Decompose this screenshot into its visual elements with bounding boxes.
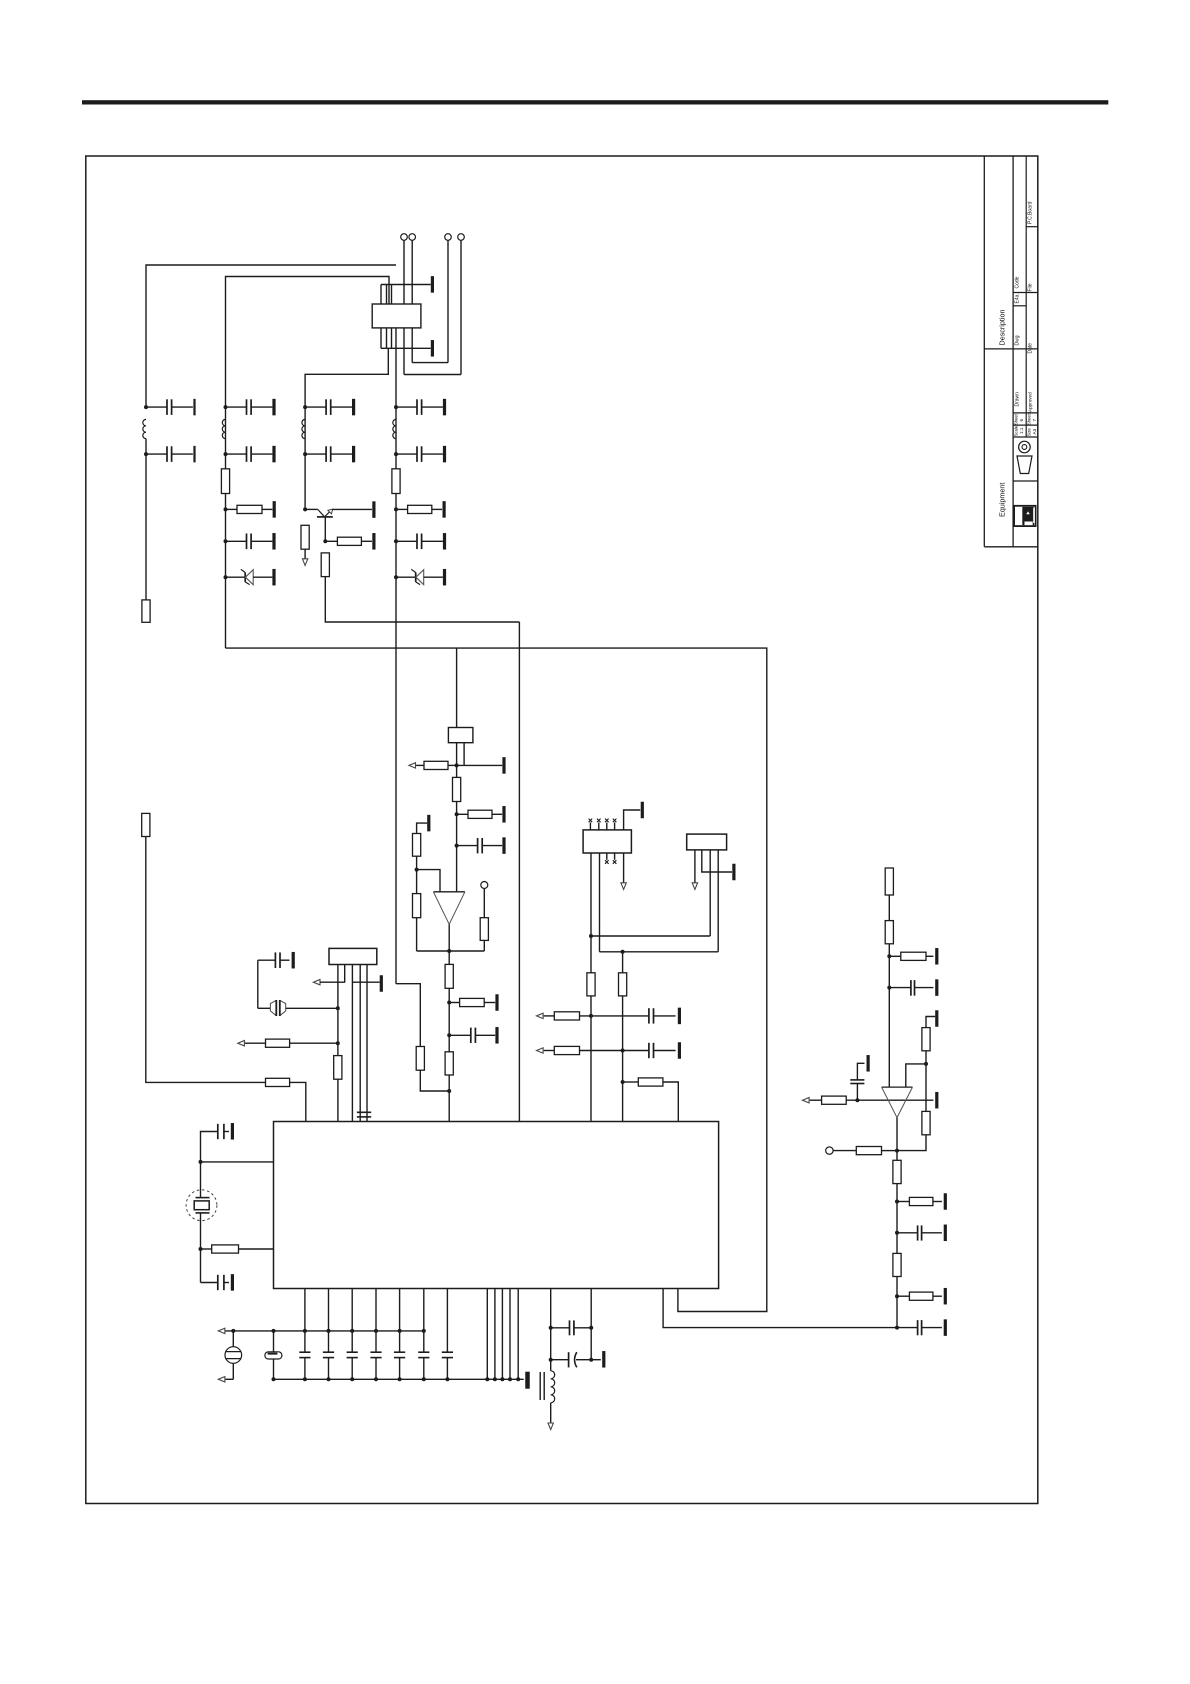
ceramic resonator Y1 xyxy=(232,1331,234,1347)
node X1 top xyxy=(199,1160,203,1164)
wire cap down to discriminator xyxy=(257,960,259,1008)
terminal J1 circle xyxy=(401,234,408,241)
capacitor C32 to ground xyxy=(305,453,326,455)
title block row line y=305.8 xyxy=(1013,305,1026,307)
svg-text:Dwg: Dwg xyxy=(1015,335,1021,345)
node cap 3 top xyxy=(350,1329,354,1333)
wire R32 to node xyxy=(925,1051,927,1064)
signal arrow left bus bottom xyxy=(218,1377,225,1382)
resistor R8 to ground xyxy=(396,508,408,510)
wire U2 output bus y=951 xyxy=(417,950,485,952)
capacitor C25 bridging xyxy=(551,1327,570,1329)
resistor R31 to ground xyxy=(889,955,901,957)
wire J3 down xyxy=(447,240,449,362)
wire channel2 long run to IC pin xyxy=(226,648,767,1311)
svg-text:7: 7 xyxy=(1032,419,1037,422)
wire IC pin to T2 xyxy=(550,1289,552,1371)
resistor R38 vertical xyxy=(893,1253,901,1276)
capacitor C10 between pin4 pin5 xyxy=(357,1111,371,1113)
node cap 5 top xyxy=(398,1329,402,1333)
node R39 junction xyxy=(895,1294,899,1298)
capacitor C6 to ground xyxy=(396,406,417,408)
resistor R17 vertical xyxy=(416,870,418,894)
node R25 junction xyxy=(589,1014,593,1018)
wire elbow to C15 xyxy=(201,1132,218,1162)
node inv input xyxy=(415,868,419,872)
wire J2-J3 link y=362.6 xyxy=(412,362,448,364)
node cap 6 bottom xyxy=(422,1377,426,1381)
wire IC ground pin 2 xyxy=(494,1289,496,1380)
page top rule xyxy=(82,100,1108,104)
node ground pin 4 xyxy=(508,1377,512,1381)
wire node down xyxy=(925,1064,927,1112)
inductor L3 xyxy=(393,419,396,438)
node channel2 row1 xyxy=(224,405,228,409)
resistor R21 vertical xyxy=(445,1052,453,1075)
wire R10 to IC pin xyxy=(290,1082,306,1121)
electrolytic capacitor C17 xyxy=(272,1329,276,1333)
wire IC pin to cap 5 xyxy=(399,1289,401,1353)
wire channel2 vertical xyxy=(225,407,227,648)
node T2 cap2 xyxy=(549,1358,553,1362)
capacitor C3 to ground xyxy=(226,406,247,408)
wire channel1 mid xyxy=(145,439,147,600)
resistor R14 vertical xyxy=(456,765,458,777)
wire J1-J4 link y=374.5 xyxy=(404,374,461,376)
resistor R23 vertical xyxy=(587,973,595,996)
resistor R13 horizontal xyxy=(416,764,424,766)
svg-text:Drawn: Drawn xyxy=(1015,392,1021,407)
wire R29-R30 xyxy=(888,895,890,921)
resistor R25 horizontal xyxy=(544,1015,555,1017)
wire R36 down xyxy=(896,1184,898,1254)
B3 top pin 4 with x mark xyxy=(614,823,616,830)
resistor R39 to ground xyxy=(897,1295,909,1297)
node R13 junction xyxy=(455,763,459,767)
signal arrow down channel3 xyxy=(302,559,307,566)
B3 bottom x-mark pin 1 xyxy=(606,853,608,860)
capacitor C19 xyxy=(323,1351,334,1353)
wire J2 down through balun xyxy=(411,240,413,362)
IC B1 filter box xyxy=(329,948,377,964)
ground plate bar B1 xyxy=(380,975,383,992)
node resonator top xyxy=(231,1329,235,1333)
wire X1 top to IC xyxy=(201,1161,274,1163)
projection symbol circle xyxy=(1019,441,1031,453)
signal arrow left SIF line1 xyxy=(537,1013,544,1018)
wire B4 pin2 to ground plate xyxy=(702,850,732,872)
resistor R28 horizontal xyxy=(201,1248,212,1250)
B3 top pin 1 with x mark xyxy=(589,823,591,830)
svg-text:Description: Description xyxy=(998,310,1007,346)
capacitor C20 xyxy=(347,1351,358,1353)
plate bar bottom of balun xyxy=(431,340,434,357)
wire IC pin elbow to audio bottom xyxy=(663,1289,897,1328)
resistor R20 to ground xyxy=(449,1002,459,1004)
wire node to op-amp input xyxy=(417,870,440,892)
wire channel4 vertical long xyxy=(395,328,397,984)
wire IC ground pin 1 xyxy=(486,1289,488,1380)
resistor R32 vertical xyxy=(922,1028,930,1051)
capacitor C14 to ground xyxy=(648,1043,650,1058)
balun top strap to plate xyxy=(381,284,431,286)
resistor R1 vertical xyxy=(142,600,150,622)
ground plate bar C28 xyxy=(867,1055,870,1072)
svg-text:Sheets: Sheets xyxy=(1027,412,1032,425)
wire IC ground pin 4 xyxy=(509,1289,511,1380)
capacitor C2 to ground xyxy=(146,453,167,455)
wire elbow to C16 xyxy=(201,1282,218,1284)
wire X1 bottom xyxy=(200,1213,202,1283)
node cap 2 bottom xyxy=(327,1377,331,1381)
op-amp U4 triangle xyxy=(882,1086,913,1088)
node R15 junction xyxy=(455,812,459,816)
wire arrow to resonator xyxy=(226,1378,234,1380)
wire R9 down and across xyxy=(146,837,266,1083)
transistor Q1 emitter lead with arrow xyxy=(325,511,330,516)
wire plate to R32 xyxy=(926,1017,935,1028)
inductor L4 xyxy=(302,419,305,438)
projection symbol cone xyxy=(1017,456,1032,474)
svg-text:1:1: 1:1 xyxy=(1019,427,1024,434)
capacitor C30 to ground xyxy=(897,1327,918,1329)
signal arrow left AF out xyxy=(313,980,320,985)
node channel4 row4 xyxy=(394,539,398,543)
node C29 junction xyxy=(895,1231,899,1235)
resistor R2 vertical xyxy=(221,469,229,494)
wire R34 to op-amp xyxy=(846,1099,933,1101)
capacitor C18 xyxy=(299,1351,310,1353)
plate bar B4 xyxy=(732,864,735,881)
terminal circle U2 aux xyxy=(481,882,488,889)
node ground pin 5 xyxy=(516,1377,520,1381)
resistor R16 vertical xyxy=(413,834,421,857)
wire to ground bar xyxy=(591,1359,601,1361)
title block row line y=481 (projection symbol cell) xyxy=(1013,480,1038,482)
ground plate bar inv input xyxy=(427,815,430,832)
capacitor C23 xyxy=(418,1351,429,1353)
plate bar Q1 emitter xyxy=(372,501,375,517)
capacitor C27 to ground xyxy=(889,987,911,989)
signal arrow down B3 xyxy=(621,883,626,890)
node noninv input xyxy=(924,1062,928,1066)
wire J1 down through balun xyxy=(403,240,405,374)
signal arrow left SIF line2 xyxy=(537,1048,544,1053)
IC B2 box xyxy=(448,728,473,743)
node channel2 row3 xyxy=(224,507,228,511)
node C27 junction xyxy=(887,986,891,990)
node cap 1 top xyxy=(303,1329,307,1333)
zener diode D2 to ground xyxy=(396,576,416,578)
capacitor C11 to ground xyxy=(457,845,478,847)
balun winding line x=386.5 xyxy=(386,285,388,349)
node channel4 row5 xyxy=(394,575,398,579)
T2 core lines xyxy=(539,1372,541,1400)
node channel3 row1 xyxy=(303,405,307,409)
wire bus top y=1330.9 xyxy=(226,1330,424,1332)
node SIF1 xyxy=(621,950,625,954)
wire arrow to box pin2 xyxy=(320,981,345,983)
node R26 junction xyxy=(621,1049,625,1053)
title block row line y=348.9 (Description cell) xyxy=(984,348,1038,350)
svg-text:Size: Size xyxy=(1027,427,1032,436)
balun transformer T1 box xyxy=(372,304,421,328)
title block column line x=1026.2 xyxy=(1025,156,1027,437)
node pin591 cap1 xyxy=(589,1326,593,1330)
wire B1 pin1 to IC xyxy=(337,965,339,1056)
wire B3 chain to IC xyxy=(590,936,592,973)
wire B3 top to ground plate xyxy=(624,810,641,830)
wire IC pin to cap 7 xyxy=(446,1289,448,1353)
ground bar bus bottom xyxy=(525,1372,530,1389)
svg-text:Code: Code xyxy=(1015,276,1021,288)
capacitor C15 to ground xyxy=(217,1124,219,1139)
ground plate bar noninv xyxy=(935,1010,938,1027)
terminal J3 circle xyxy=(445,234,452,241)
node channel2 row5 xyxy=(224,575,228,579)
resistor R9 vertical isolated xyxy=(142,813,150,836)
wire IC pin to cap 2 xyxy=(328,1289,330,1353)
svg-text:A3: A3 xyxy=(1032,428,1037,434)
wire B4 pin4 down xyxy=(717,850,719,952)
resistor R4 vertical channel3 xyxy=(301,525,309,549)
IC U3 main box xyxy=(274,1122,719,1289)
capacitor C5 to ground xyxy=(226,540,247,542)
node R20 junction xyxy=(447,1001,451,1005)
capacitor C31 to ground xyxy=(305,406,326,408)
wire IC pin to cap 6 xyxy=(423,1289,425,1353)
svg-text:6: 6 xyxy=(1019,419,1024,422)
wire R38 down xyxy=(896,1277,898,1328)
node channel4 row3 xyxy=(394,507,398,511)
wire IC ground pin 3 xyxy=(501,1289,503,1380)
node output to IC xyxy=(447,1089,451,1093)
resistor R12 vertical pin1 xyxy=(334,1056,342,1080)
capacitor C29 to ground xyxy=(897,1232,918,1234)
resistor R33 vertical xyxy=(922,1111,930,1134)
node discriminator to pin1 xyxy=(336,1006,340,1010)
node channel1 row1 xyxy=(144,405,148,409)
node C11 junction xyxy=(455,844,459,848)
node cap 6 top xyxy=(422,1329,426,1333)
wire link2 y=951.8 xyxy=(600,951,719,953)
node channel2 row2 xyxy=(224,452,228,456)
node channel3 row3 xyxy=(303,507,307,511)
node ground pin 1 xyxy=(485,1377,489,1381)
wire bus elbow to R22 xyxy=(396,984,420,1047)
node cap 7 bottom xyxy=(445,1377,449,1381)
resistor R22 vertical xyxy=(416,1047,424,1071)
plate bar top of balun xyxy=(431,276,434,293)
wire R16 to node xyxy=(416,856,418,869)
node C12 junction xyxy=(447,1033,451,1037)
inductor L1 xyxy=(143,419,146,438)
capacitor C8 to ground xyxy=(396,540,417,542)
B3 top pin 3 with x mark xyxy=(606,823,608,830)
op-amp U2 triangle xyxy=(433,891,465,893)
wire B2 bottom pins xyxy=(456,743,458,766)
terminal circle audio xyxy=(826,1147,833,1154)
capacitor C21 xyxy=(370,1351,381,1353)
svg-text:Date: Date xyxy=(1028,343,1034,354)
resistor R10 horizontal xyxy=(266,1078,290,1086)
wire node down xyxy=(622,952,624,973)
inductor L2 xyxy=(222,419,225,438)
capacitor C16 to ground xyxy=(217,1275,219,1290)
company logo box xyxy=(1014,506,1036,526)
plate bar B2 xyxy=(502,757,505,774)
inductor T2 winding xyxy=(551,1371,555,1403)
node R37 junction xyxy=(895,1200,899,1204)
wire B1 pin2 xyxy=(344,965,346,983)
resistor R34 horizontal xyxy=(810,1099,822,1101)
wire X1 riser xyxy=(200,1162,202,1198)
wire plate to R16 xyxy=(417,823,428,833)
node pin591 cap2 xyxy=(589,1358,593,1362)
svg-text:Approved: Approved xyxy=(1028,392,1033,412)
capacitor C9 to ground xyxy=(258,959,276,961)
capacitor C24 xyxy=(442,1351,453,1353)
signal arrow down T2 xyxy=(548,1423,553,1430)
terminal J4 circle xyxy=(458,234,465,241)
node cap 3 bottom xyxy=(350,1377,354,1381)
node cap 1 bottom xyxy=(303,1377,307,1381)
svg-text:Sheet: Sheet xyxy=(1014,413,1019,425)
title block column line x=984.3 xyxy=(983,156,985,547)
capacitor C4 to ground xyxy=(226,453,247,455)
ceramic discriminator X2 xyxy=(258,1007,270,1009)
node cap 4 top xyxy=(374,1329,378,1333)
capacitor C7 to ground xyxy=(396,453,417,455)
IC B4 box xyxy=(687,834,727,850)
title block bottom line y=546.8 xyxy=(984,546,1038,548)
drawing frame border xyxy=(86,156,1038,1504)
ground plate bar op-amp right xyxy=(935,1092,938,1109)
wire C28 to ground plate xyxy=(857,1063,864,1080)
balun winding line x=391.5 xyxy=(391,285,393,349)
transistor Q1 collector lead xyxy=(305,508,318,510)
wire bus bottom y=1379.3 xyxy=(274,1378,524,1380)
node T2 cap1 xyxy=(549,1326,553,1330)
node channel4 row2 xyxy=(394,452,398,456)
resistor R37 to ground xyxy=(897,1201,909,1203)
svg-text:File: File xyxy=(1028,283,1034,291)
IC B3 ceramic filter box xyxy=(583,830,631,853)
resistor R30 vertical xyxy=(885,921,893,944)
node X1 bottom xyxy=(199,1247,203,1251)
capacitor C22 xyxy=(394,1351,405,1353)
polarized capacitor C26 bridging xyxy=(551,1359,569,1361)
wire B3 pin to node xyxy=(590,853,592,936)
signal arrow left VIF xyxy=(409,763,416,768)
resistor R7 vertical xyxy=(392,469,400,494)
resistor R15 to ground xyxy=(457,813,468,815)
wire T2 to arrow xyxy=(550,1403,552,1423)
svg-text:Scale: Scale xyxy=(1014,425,1019,436)
terminal J2 circle xyxy=(409,234,416,241)
title block row line y=292.5 (Code/File cell) xyxy=(1013,292,1038,294)
wire node to op-amp xyxy=(906,1064,926,1087)
transistor Q1 base bar xyxy=(317,516,333,518)
resistor R27 horizontal to IC xyxy=(623,1081,639,1083)
wire channel3 stub from balun strap xyxy=(305,348,388,509)
wire B2 top pin xyxy=(456,648,458,727)
wire J4 down xyxy=(460,240,462,374)
resistor R35 horizontal xyxy=(856,1147,881,1155)
signal arrow left bus top xyxy=(218,1328,225,1333)
wire U4 output down xyxy=(896,1118,898,1161)
node U2 output xyxy=(447,949,451,953)
balun bottom strap to plate xyxy=(381,347,431,349)
signal arrow left audio in xyxy=(803,1098,810,1103)
wire B4 pin3 down xyxy=(709,850,711,936)
wire B4 pin1 down arrow xyxy=(694,850,696,883)
title block row line y=437 (Scale/Size cell) xyxy=(1013,436,1038,438)
crystal X1 element xyxy=(196,1197,210,1199)
B3 bottom x-mark pin 2 xyxy=(614,853,616,860)
node cap 2 top xyxy=(327,1329,331,1333)
wire IC ground pin 5 xyxy=(517,1289,519,1380)
wire link1 y=936 xyxy=(591,935,710,937)
wire circle to R35 xyxy=(833,1150,856,1152)
wire R6 to bus elbow xyxy=(325,577,519,622)
wire Q1 base down xyxy=(324,517,326,541)
resistor R3 to ground xyxy=(226,508,238,510)
node B3-B4 link1 xyxy=(589,934,593,938)
resistor R18 vertical xyxy=(480,918,488,941)
resistor R5 to ground xyxy=(325,540,337,542)
wire R30 down xyxy=(888,944,890,1087)
wire R22 to node xyxy=(420,1070,449,1091)
node ground pin 3 xyxy=(500,1377,504,1381)
svg-text:P.C.Board: P.C.Board xyxy=(1028,201,1034,224)
wire IC pin to cap 4 xyxy=(375,1289,377,1353)
wire IC pin x=591.2 down xyxy=(590,1289,592,1360)
title block row line y=412.9 (Drawn/Approved cell) xyxy=(1013,412,1038,414)
title block column line x=1013.1 xyxy=(1012,156,1014,547)
node channel2 row4 xyxy=(224,539,228,543)
title block row line y=425.1 (Sheet/Sheets cell) xyxy=(1013,424,1038,426)
resistor R29 vertical xyxy=(885,868,893,895)
wire IC pin to cap 3 xyxy=(351,1289,353,1353)
signal arrow down B4 xyxy=(692,883,697,890)
node channel1 row2 xyxy=(144,452,148,456)
node ground pin 2 xyxy=(493,1377,497,1381)
node R11 to pin1 xyxy=(336,1041,340,1045)
node C17 bottom xyxy=(272,1377,276,1381)
node R31 junction xyxy=(887,954,891,958)
svg-text:E4a.: E4a. xyxy=(1015,293,1021,303)
wire B3 output down arrow xyxy=(623,853,625,883)
node U4 output xyxy=(895,1149,899,1153)
wire right bus x=519.4 xyxy=(518,622,520,1122)
resistor R19 vertical xyxy=(448,951,450,964)
wire IC pin to cap 1 xyxy=(304,1289,306,1353)
node inv input audio xyxy=(855,1098,859,1102)
node R27 junction xyxy=(621,1080,625,1084)
zener diode D1 to ground xyxy=(226,576,246,578)
wire B3 pin2 down xyxy=(599,853,601,952)
B3 top pin 2 with x mark xyxy=(598,823,600,830)
plate bar B3 xyxy=(641,802,644,819)
wire circle to R18 xyxy=(483,889,485,918)
wire R33 to output node xyxy=(897,1135,926,1151)
svg-text:Equipment: Equipment xyxy=(998,483,1007,517)
node channel3 row2 xyxy=(303,452,307,456)
capacitor C28 inv input xyxy=(850,1079,864,1081)
resistor R6 vertical xyxy=(321,553,329,577)
crystal X1 dashed circle xyxy=(186,1190,217,1221)
